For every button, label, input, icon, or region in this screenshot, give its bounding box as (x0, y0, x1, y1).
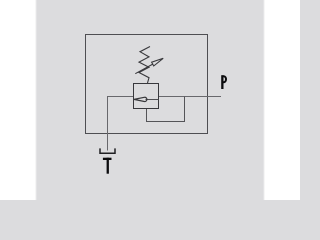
spring (zigzag above valve) (139, 47, 150, 84)
valve internal flow line (146, 99, 159, 101)
enclosure (valve body boundary) rectangle (86, 35, 208, 134)
background gray panel (0, 0, 300, 200)
wire: left port of valve to tank drop (108, 97, 134, 151)
tank/reservoir symbol at port T (100, 148, 115, 153)
adjustability arrow shaft through spring (135, 64, 153, 74)
relief valve V1 body square (134, 84, 159, 109)
valve internal flow arrowhead (points left, nib with rounded back) (134, 97, 147, 101)
adjustability arrowhead (open) (152, 58, 164, 66)
port P label (bold condensed) (221, 75, 223, 89)
white margin strip at left (0, 0, 36, 200)
wire: right port of valve to port P (159, 96, 222, 98)
white margin strip at right (265, 0, 301, 200)
wire: pilot line loop from valve bottom to P line (147, 97, 185, 122)
port T label (bold condensed) (103, 158, 112, 160)
